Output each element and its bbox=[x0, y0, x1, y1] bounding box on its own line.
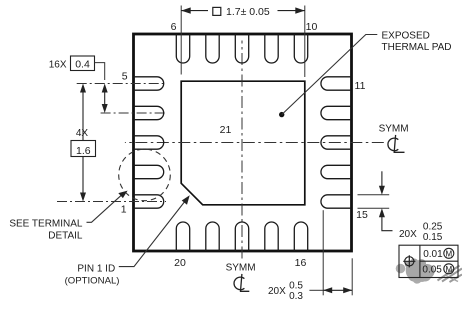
svg-text:5: 5 bbox=[122, 71, 128, 83]
svg-text:1.6: 1.6 bbox=[76, 145, 91, 157]
svg-text:0.15: 0.15 bbox=[423, 232, 443, 243]
pin 2 bbox=[134, 165, 164, 178]
pin 20 bbox=[176, 222, 189, 251]
pin 1 bbox=[134, 195, 164, 208]
pin 14 bbox=[321, 165, 352, 178]
svg-text:20X: 20X bbox=[268, 286, 286, 297]
pin 7 bbox=[206, 34, 219, 63]
pin 5 bbox=[134, 77, 164, 90]
pin 4 centerline stub bbox=[101, 112, 166, 114]
pin 19 bbox=[206, 222, 219, 251]
svg-text:0.5: 0.5 bbox=[289, 281, 303, 292]
pin 11 bbox=[321, 77, 352, 90]
svg-text:SYMM: SYMM bbox=[379, 124, 409, 135]
svg-text:1: 1 bbox=[121, 204, 127, 216]
svg-text:6: 6 bbox=[171, 21, 177, 33]
svg-text:21: 21 bbox=[220, 124, 232, 136]
pin 10 bbox=[294, 34, 307, 63]
pin 1 centerline stub bbox=[57, 201, 166, 203]
svg-text:15: 15 bbox=[356, 209, 368, 221]
svg-text:EXPOSED: EXPOSED bbox=[382, 31, 430, 42]
terminal width text 20X 0.25/0.15 bbox=[399, 222, 443, 243]
watermark gray blob bbox=[396, 258, 462, 283]
svg-text:THERMAL PAD: THERMAL PAD bbox=[382, 42, 452, 53]
see terminal detail leader bbox=[87, 191, 128, 223]
svg-text:1.7± 0.05: 1.7± 0.05 bbox=[226, 6, 270, 18]
svg-text:0.01: 0.01 bbox=[423, 249, 443, 260]
pin 9 bbox=[265, 34, 278, 63]
terminal length double arrow bbox=[323, 287, 352, 293]
see terminal detail label bbox=[9, 219, 83, 242]
terminal length leader bbox=[309, 289, 323, 291]
svg-text:0.4: 0.4 bbox=[75, 58, 90, 70]
0.4 box bbox=[71, 56, 95, 71]
terminal length extension line outer bbox=[351, 258, 353, 295]
pin 1 id label bbox=[65, 264, 120, 287]
svg-text:4X: 4X bbox=[76, 128, 89, 139]
terminal width extension lines bbox=[358, 195, 390, 208]
position tolerance symbol bbox=[403, 255, 415, 267]
svg-text:16X: 16X bbox=[49, 59, 67, 70]
pad dimension extension line left bbox=[180, 6, 182, 75]
svg-text:20X: 20X bbox=[399, 229, 417, 240]
square symbol bbox=[213, 7, 221, 15]
pin 6 bbox=[176, 34, 189, 63]
vertical centerline bbox=[241, 41, 243, 259]
exposed thermal pad leader dot bbox=[279, 112, 284, 117]
pin 12 bbox=[321, 106, 352, 119]
exposed thermal pad leader bbox=[282, 35, 378, 115]
pin 8 bbox=[235, 34, 248, 63]
terminal width down arrow bbox=[379, 171, 385, 195]
svg-text:PIN 1 ID: PIN 1 ID bbox=[77, 264, 115, 275]
svg-text:16: 16 bbox=[295, 257, 307, 269]
terminal length extension line inner bbox=[322, 210, 324, 295]
feature control frame bbox=[399, 245, 458, 277]
pin 13 bbox=[321, 136, 352, 149]
svg-text:DETAIL: DETAIL bbox=[48, 231, 83, 242]
pin 16 bbox=[294, 222, 307, 251]
terminal length text 20X 0.5/0.3 bbox=[268, 281, 303, 303]
svg-text:11: 11 bbox=[355, 80, 366, 92]
terminal width up arrow with elbow bbox=[379, 208, 393, 231]
1.6 lower arrow bbox=[80, 157, 86, 202]
svg-text:(OPTIONAL): (OPTIONAL) bbox=[65, 275, 120, 286]
pad dimension line right arrow bbox=[278, 7, 305, 13]
svg-text:0.3: 0.3 bbox=[289, 291, 303, 302]
1.6 box bbox=[71, 141, 96, 157]
horizontal centerline bbox=[125, 142, 384, 144]
pin 18 bbox=[235, 222, 248, 251]
svg-text:0.05: 0.05 bbox=[422, 265, 442, 276]
terminal detail circle bbox=[119, 149, 171, 201]
exposed thermal pad outline with pin-1 chamfer bbox=[181, 81, 305, 205]
pin 15 bbox=[321, 195, 352, 208]
pin 3 bbox=[134, 136, 164, 149]
1.6 upper arrow bbox=[80, 84, 86, 141]
package outline bbox=[134, 34, 352, 251]
pin 4 bbox=[134, 106, 164, 119]
0.4 pitch double arrow bbox=[102, 84, 108, 114]
svg-text:M: M bbox=[445, 265, 452, 274]
svg-text:M: M bbox=[445, 249, 452, 258]
tolerance row 1: 0.01 M bbox=[423, 248, 454, 260]
svg-text:20: 20 bbox=[174, 257, 186, 269]
pin 17 bbox=[265, 222, 278, 251]
bottom centerline symbol bbox=[234, 274, 249, 291]
right centerline symbol bbox=[388, 135, 405, 152]
0.4 leader elbow bbox=[95, 63, 105, 80]
pad dimension extension line right bbox=[304, 6, 306, 78]
svg-text:10: 10 bbox=[306, 21, 318, 33]
exposed thermal pad label bbox=[382, 31, 452, 53]
svg-text:SYMM: SYMM bbox=[226, 263, 256, 274]
pad dimension line left arrow bbox=[181, 7, 208, 13]
svg-text:SEE TERMINAL: SEE TERMINAL bbox=[9, 219, 83, 230]
pin 5 centerline stub bbox=[77, 83, 166, 85]
tolerance row 2: 0.05 M bbox=[422, 264, 453, 276]
pin 1 id leader bbox=[119, 195, 190, 266]
